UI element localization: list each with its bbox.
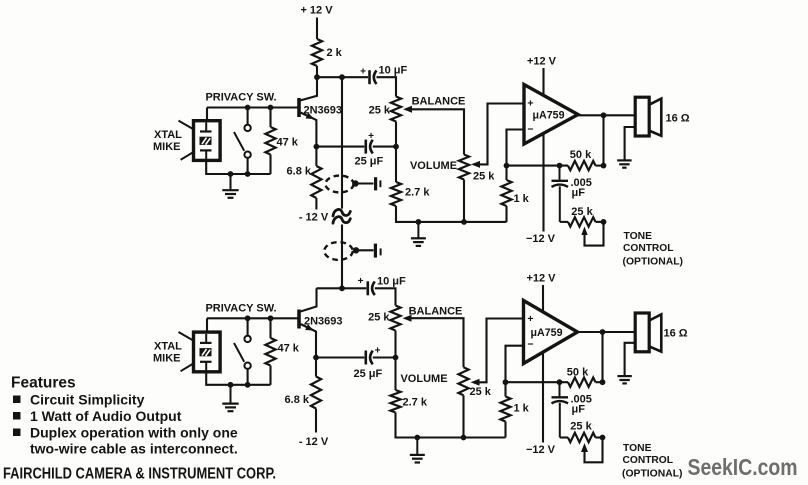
potentiometer BALANCE 25 k (top)	[391, 97, 401, 122]
mike crystal element (bottom)	[200, 348, 212, 356]
mike pointer line lower (top)	[181, 153, 193, 160]
wire rail down to mike box (bottom)	[206, 318, 208, 332]
junction ground rail at volume (top)	[461, 219, 467, 225]
svg-text:MIKE: MIKE	[153, 141, 181, 153]
mike pointer line upper (top)	[179, 121, 194, 129]
svg-text:+: +	[527, 98, 533, 110]
ground mike (top)	[230, 174, 232, 190]
svg-text:6.8 k: 6.8 k	[287, 166, 312, 178]
wire 1k top (top)	[505, 166, 507, 180]
svg-text:+: +	[358, 276, 364, 287]
svg-text:+: +	[368, 131, 374, 142]
junction tone row right (bottom)	[600, 435, 606, 441]
junction output node (bottom)	[600, 329, 606, 335]
wire balance wiper to volume top (top)	[403, 106, 412, 113]
wire 6.8k to -12V (bottom)	[315, 409, 317, 433]
transistor Q2 emitter lead	[301, 324, 317, 358]
wire +12V to op-amp (bottom)	[542, 285, 544, 312]
cable break squiggle lower	[333, 217, 350, 224]
wire tone row right (bottom)	[596, 436, 603, 438]
svg-text:50 k: 50 k	[570, 149, 592, 161]
junction collector node (top)	[314, 74, 320, 80]
mike bottom electrode (top)	[200, 149, 212, 151]
chassis termination lower	[374, 244, 377, 258]
svg-text:25 k: 25 k	[473, 171, 495, 183]
svg-text:25 k: 25 k	[571, 206, 593, 218]
svg-text:2.7 k: 2.7 k	[403, 397, 428, 409]
junction output node (top)	[601, 112, 607, 118]
wire tone wiper (bottom)	[581, 443, 588, 452]
junction 25uF node (top)	[393, 144, 399, 150]
svg-text:25 k: 25 k	[369, 105, 391, 117]
wire balance pot to 25uF node (top)	[395, 122, 397, 147]
privacy switch contact lower (top)	[244, 152, 250, 158]
transistor Q1 2N3693 base bar	[297, 98, 301, 117]
wire privacy rail to base (bottom)	[207, 317, 298, 319]
bullet 1 marker	[13, 396, 21, 404]
svg-text:+ 12 V: + 12 V	[300, 5, 333, 17]
svg-text:2 k: 2 k	[327, 47, 343, 59]
svg-text:two-wire cable as interconnect: two-wire cable as interconnect.	[30, 441, 238, 457]
ground rail symbol (top)	[417, 222, 419, 238]
junction cable tap (top)	[339, 74, 345, 80]
svg-text:2N3693: 2N3693	[304, 316, 343, 328]
svg-text:PRIVACY SW.: PRIVACY SW.	[205, 92, 276, 104]
svg-text:CONTROL: CONTROL	[623, 242, 674, 254]
svg-text:50 k: 50 k	[567, 367, 589, 379]
wire op-amp to -12V (bottom)	[542, 352, 544, 443]
capacitor .005 uF (top)	[559, 166, 561, 180]
junction feedback at .005 cap (top)	[557, 163, 563, 169]
potentiometer BALANCE 25 k (bottom)	[390, 306, 400, 331]
svg-text:MIKE: MIKE	[153, 352, 181, 364]
svg-text:25 k: 25 k	[368, 312, 390, 324]
wire switch bottom (bottom)	[247, 369, 249, 385]
junction tone row right (top)	[601, 219, 607, 225]
svg-text:1 Watt of Audio Output: 1 Watt of Audio Output	[30, 408, 182, 424]
privacy switch contact lower (bottom)	[244, 363, 250, 369]
wire 47k top (bottom)	[269, 318, 271, 338]
wire 47k top (top)	[269, 108, 271, 128]
wire collector row (bottom)	[317, 287, 367, 289]
wire 25uF node to 2.7k (top)	[395, 147, 397, 182]
wire volume wiper to op-amp + input (bottom)	[471, 379, 480, 386]
resistor 50 k (top)	[568, 161, 596, 170]
wire interconnect cable upper	[341, 77, 343, 208]
svg-text:6.8 k: 6.8 k	[285, 394, 310, 406]
wire output to feedback (bottom)	[601, 332, 603, 382]
wire op-amp output to speaker (top)	[578, 114, 634, 116]
crystal mike box (top)	[194, 121, 221, 161]
svg-text:FAIRCHILD CAMERA & INSTRUMENT: FAIRCHILD CAMERA & INSTRUMENT CORP.	[3, 466, 276, 483]
transistor Q1 collector lead	[301, 77, 318, 100]
svg-text:1 k: 1 k	[514, 403, 530, 415]
svg-text:10 μF: 10 μF	[379, 65, 408, 77]
resistor 1 k (top)	[501, 180, 511, 206]
svg-text:- 12 V: - 12 V	[299, 212, 329, 224]
wire output to feedback (top)	[602, 115, 604, 165]
wire 25uF to node (top)	[373, 146, 396, 148]
op-amp U2 uA759 (bottom)	[524, 301, 578, 364]
wire speaker return (bottom)	[625, 343, 636, 376]
resistor 6.8 k (top)	[311, 166, 321, 198]
resistor 47 k (top)	[265, 127, 275, 155]
wire tone row left (bottom)	[560, 436, 568, 438]
svg-text:+12 V: +12 V	[526, 273, 556, 285]
svg-text:μA759: μA759	[533, 110, 565, 122]
speaker magnet (top)	[635, 97, 649, 136]
capacitor .005 uF (bottom)	[559, 382, 561, 396]
wire 10uF to balance pot (bottom)	[375, 288, 396, 305]
wire switch top (top)	[247, 108, 249, 125]
wire 2.7k to ground rail (bottom)	[396, 413, 506, 438]
junction feedback at .005 cap (bottom)	[557, 379, 563, 385]
wire 47k bottom (bottom)	[269, 366, 271, 385]
junction privacy rail at switch (bottom)	[245, 315, 251, 321]
wire switch top (bottom)	[247, 318, 249, 335]
svg-text:μF: μF	[572, 403, 586, 415]
svg-text:- 12 V: - 12 V	[299, 436, 329, 448]
resistor 2.7 k (top)	[391, 182, 401, 206]
svg-text:TONE: TONE	[624, 230, 653, 242]
wire speaker return (top)	[625, 127, 636, 160]
wire 2k to collector node	[316, 66, 318, 77]
wire feedback row left (bottom)	[506, 381, 569, 383]
svg-text:25 μF: 25 μF	[354, 368, 383, 380]
svg-text:BALANCE: BALANCE	[409, 306, 463, 318]
wire rail down to mike box (top)	[206, 108, 208, 121]
wire interconnect cable lower	[341, 225, 343, 289]
wire +12V to R 2k	[316, 18, 318, 40]
resistor 47 k (bottom)	[265, 338, 275, 366]
wire emitter to 25uF cap (top)	[316, 146, 364, 148]
wire 25uF node to 2.7k (bottom)	[394, 358, 396, 391]
transistor Q1 emitter lead	[301, 113, 317, 147]
wire tone wiper (top)	[581, 227, 587, 236]
wire privacy rail to base (top)	[207, 106, 298, 108]
junction privacy rail at switch (top)	[245, 105, 251, 111]
junction cable tap (bottom)	[339, 285, 345, 291]
junction shield tap upper	[352, 180, 358, 186]
transistor Q2 collector lead	[301, 288, 317, 311]
svg-text:+12 V: +12 V	[527, 56, 557, 68]
svg-text:BALANCE: BALANCE	[412, 96, 466, 108]
svg-text:Circuit Simplicity: Circuit Simplicity	[30, 392, 145, 408]
resistor 2 k (top)	[312, 39, 322, 66]
ground speaker (top)	[617, 159, 631, 161]
wire tone row left (top)	[560, 221, 568, 223]
junction ground rail at ground (bottom)	[414, 435, 420, 441]
privacy switch lever (bottom)	[234, 343, 244, 362]
svg-text:−: −	[527, 124, 533, 136]
svg-text:2.7 k: 2.7 k	[405, 187, 430, 199]
mike top electrode (bottom)	[205, 334, 207, 343]
bullet 3 marker	[13, 429, 21, 437]
wire 50k to output branch (bottom)	[596, 381, 603, 383]
svg-text:+: +	[360, 67, 366, 78]
svg-text:XTAL: XTAL	[154, 129, 182, 141]
cable shield ellipse upper	[326, 176, 354, 193]
potentiometer TONE 25 k (top)	[568, 217, 596, 226]
wire 6.8k to -12V (top)	[315, 198, 317, 210]
junction bottom rail at ground (bottom)	[228, 382, 234, 388]
svg-text:SeekIC.com: SeekIC.com	[688, 454, 798, 480]
crystal mike box (bottom)	[194, 332, 221, 372]
junction output branch at 50k (bottom)	[600, 379, 606, 385]
svg-text:XTAL: XTAL	[154, 340, 182, 352]
speaker cone (top)	[649, 99, 661, 136]
bullet 2 marker	[13, 412, 21, 420]
mike pointer line lower (bottom)	[181, 364, 193, 371]
svg-text:TONE: TONE	[623, 442, 652, 454]
svg-text:(OPTIONAL): (OPTIONAL)	[622, 468, 683, 480]
mike top electrode (top)	[205, 123, 207, 132]
chassis termination upper	[374, 177, 377, 190]
wire mike box to bottom rail (bottom)	[206, 372, 270, 385]
wire mike box to bottom rail (top)	[206, 160, 270, 174]
junction feedback at 1k (bottom)	[503, 379, 509, 385]
junction privacy rail at 47k (top)	[268, 105, 274, 111]
wire volume pot to ground rail (top)	[463, 180, 465, 222]
privacy switch lever (top)	[234, 132, 244, 151]
mike crystal element (top)	[200, 137, 212, 145]
potentiometer VOLUME 25 k (bottom)	[458, 367, 468, 395]
wire emitter to 25uF cap (bottom)	[316, 356, 364, 358]
potentiometer TONE 25 k (bottom)	[568, 433, 596, 442]
svg-text:Duplex operation with only one: Duplex operation with only one	[30, 425, 238, 441]
mike bottom electrode (bottom)	[200, 361, 212, 363]
svg-text:VOLUME: VOLUME	[410, 160, 457, 172]
svg-text:−12 V: −12 V	[526, 233, 556, 245]
wire 1k top (bottom)	[504, 382, 506, 396]
speaker magnet (bottom)	[635, 313, 649, 352]
wire shield to chassis lower	[356, 249, 374, 251]
svg-text:VOLUME: VOLUME	[400, 373, 447, 385]
capacitor 10 uF (top)	[368, 70, 371, 84]
svg-text:25 μF: 25 μF	[355, 156, 384, 168]
ground speaker (bottom)	[617, 375, 631, 377]
svg-text:−12 V: −12 V	[526, 444, 556, 456]
cable break squiggle upper	[333, 209, 350, 216]
capacitor 10 uF (bottom)	[366, 281, 369, 295]
wire 47k bottom (top)	[269, 155, 271, 175]
wire balance pot to 25uF node (bottom)	[394, 331, 396, 358]
svg-text:(OPTIONAL): (OPTIONAL)	[623, 256, 684, 268]
svg-text:CONTROL: CONTROL	[623, 454, 674, 466]
svg-text:10 μF: 10 μF	[377, 276, 406, 288]
wire emitter node to 6.8k (top)	[315, 147, 317, 166]
wire 1k bottom (bottom)	[504, 422, 506, 438]
junction ground rail at volume (bottom)	[461, 435, 467, 441]
svg-text:μA759: μA759	[531, 327, 563, 339]
svg-text:16 Ω: 16 Ω	[664, 328, 688, 340]
mike pointer line upper (bottom)	[179, 332, 194, 340]
wire tone row right (top)	[596, 221, 604, 223]
junction 25uF node (bottom)	[393, 355, 399, 361]
svg-text:−: −	[527, 339, 533, 351]
junction ground rail at ground (top)	[416, 219, 422, 225]
resistor 1 k (bottom)	[500, 397, 510, 422]
wire op-amp - input to feedback (top)	[507, 130, 524, 166]
svg-text:PRIVACY SW.: PRIVACY SW.	[205, 303, 276, 315]
wire 50k to output branch (top)	[596, 165, 604, 167]
privacy switch contact upper (top)	[244, 125, 250, 131]
junction output branch at 50k (top)	[601, 163, 607, 169]
resistor 2.7 k (bottom)	[390, 390, 400, 413]
wire +12V to op-amp (top)	[542, 68, 544, 96]
wire balance wiper to volume top (bottom)	[403, 315, 412, 322]
svg-text:25 k: 25 k	[570, 420, 592, 432]
wire 2.7k to ground rail (top)	[396, 206, 507, 222]
ground rail symbol (bottom)	[416, 438, 418, 455]
ground mike (bottom)	[230, 385, 232, 404]
wire switch bottom (top)	[247, 158, 249, 174]
potentiometer VOLUME 25 k (top)	[459, 155, 469, 180]
junction emitter node (bottom)	[313, 355, 319, 361]
svg-text:μF: μF	[572, 187, 586, 199]
wire 10uF to balance pot (top)	[377, 77, 397, 96]
wire op-amp to -12V (top)	[542, 133, 544, 231]
svg-text:+: +	[375, 346, 381, 357]
wire shield to chassis upper	[356, 182, 374, 184]
svg-text:2N3693: 2N3693	[304, 105, 343, 117]
wire op-amp - input to feedback (bottom)	[506, 346, 524, 383]
privacy switch contact upper (bottom)	[244, 336, 250, 342]
junction bottom rail at switch (bottom)	[245, 382, 251, 388]
wire feedback row left (top)	[507, 165, 569, 167]
capacitor 25 uF (top)	[364, 140, 367, 154]
capacitor 25 uF (bottom)	[364, 351, 367, 365]
junction emitter node (top)	[314, 144, 320, 150]
svg-text:16 Ω: 16 Ω	[666, 113, 690, 125]
cable shield ellipse lower	[324, 242, 352, 260]
svg-text:25 k: 25 k	[470, 386, 492, 398]
wire emitter node to 6.8k (bottom)	[315, 358, 317, 377]
svg-text:47 k: 47 k	[278, 343, 300, 355]
junction bottom rail at switch (top)	[245, 171, 251, 177]
speaker cone (bottom)	[649, 314, 661, 351]
junction shield tap lower	[353, 247, 359, 253]
junction feedback at 1k (top)	[504, 163, 510, 169]
op-amp U1 uA759 (top)	[524, 85, 578, 145]
svg-text:47 k: 47 k	[277, 137, 299, 149]
wire collector node to 10uF cap	[317, 76, 368, 78]
resistor 6.8 k (bottom)	[311, 377, 321, 409]
wire op-amp output to speaker (bottom)	[578, 331, 635, 333]
wire 1k bottom (top)	[505, 206, 507, 222]
junction privacy rail at 47k (bottom)	[268, 315, 274, 321]
svg-text:+: +	[527, 313, 533, 325]
resistor 50 k (bottom)	[568, 378, 596, 387]
wire volume pot to ground rail (bottom)	[462, 395, 464, 437]
wire 25uF to node (bottom)	[373, 356, 396, 358]
wire volume wiper to op-amp + input (top)	[471, 161, 480, 168]
svg-text:1 k: 1 k	[514, 193, 530, 205]
junction bottom rail at ground (top)	[228, 171, 234, 177]
svg-text:Features: Features	[11, 375, 76, 392]
transistor Q2 2N3693 base bar	[297, 310, 301, 329]
